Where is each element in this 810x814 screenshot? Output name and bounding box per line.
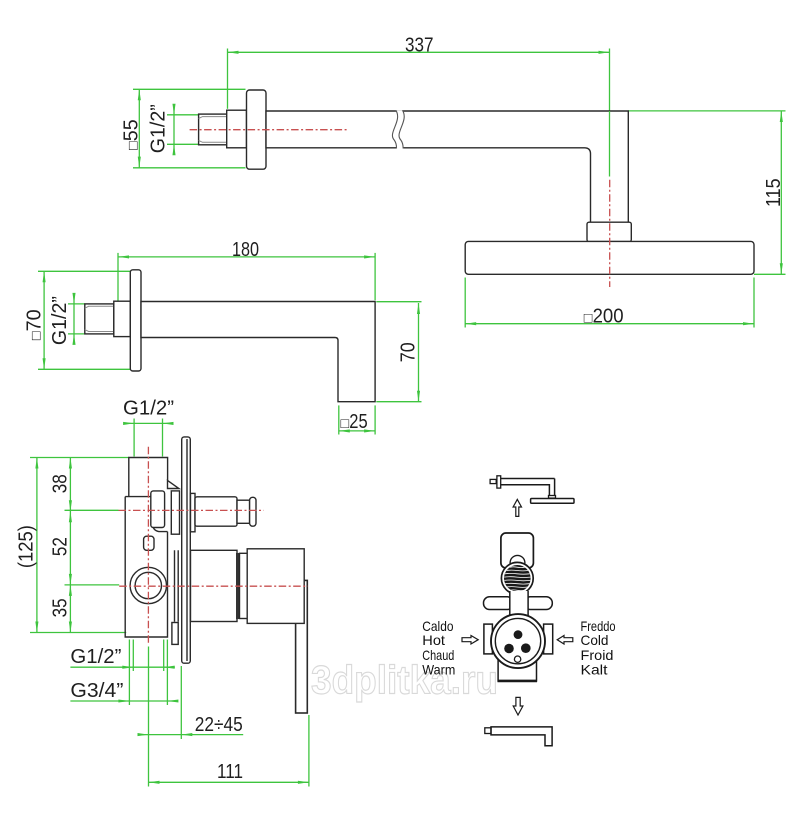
svg-text:111: 111 [217,760,243,783]
svg-text:Cold: Cold [581,632,609,648]
svg-text:G1/2”: G1/2” [48,296,71,345]
svg-text:G1/2”: G1/2” [70,645,121,668]
svg-text:52: 52 [49,537,72,556]
svg-text:Kalt: Kalt [581,661,608,677]
svg-text:35: 35 [49,598,72,617]
svg-text:70: 70 [397,342,420,362]
svg-text:G1/2”: G1/2” [123,397,174,420]
svg-text:115: 115 [762,178,785,207]
svg-text:22÷45: 22÷45 [195,713,243,736]
svg-text:(125): (125) [15,525,38,568]
svg-text:180: 180 [232,238,259,261]
svg-text:Warm: Warm [422,661,455,677]
svg-text:3dplitka.ru: 3dplitka.ru [311,659,498,703]
svg-text:G1/2”: G1/2” [147,104,170,153]
svg-text:Hot: Hot [422,632,445,648]
svg-text:38: 38 [49,474,72,493]
svg-text:G3/4”: G3/4” [70,679,123,702]
svg-text:337: 337 [405,34,434,57]
